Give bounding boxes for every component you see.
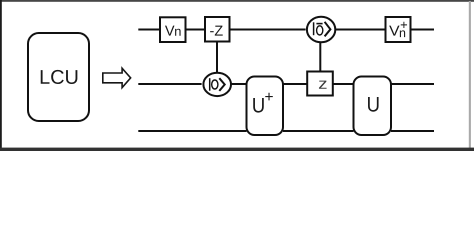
wire q1 segment 2 xyxy=(232,83,247,85)
wire q2 segment 1 xyxy=(138,130,246,132)
control wire from -Z to |0> xyxy=(216,42,218,74)
wire q0 segment 2 xyxy=(186,29,206,31)
wire q1 segment 4 xyxy=(333,83,354,85)
wire q0 segment 1 xyxy=(138,29,160,31)
wire q0 segment 5 xyxy=(411,29,435,31)
state |0bar> on wire q0 xyxy=(307,17,335,43)
gate U+ (U dagger) xyxy=(247,77,284,136)
wire q1 segment 1 xyxy=(138,83,201,85)
wire q1 segment 3 xyxy=(283,83,308,85)
arrow (implies) xyxy=(102,66,132,90)
LCU box xyxy=(28,33,89,121)
gate Vn xyxy=(160,17,186,42)
wire q2 segment 2 xyxy=(283,130,354,132)
gate U xyxy=(354,77,392,136)
wire q0 segment 4 xyxy=(336,29,386,31)
gate -Z xyxy=(205,17,230,42)
state |0> on wire q1 xyxy=(203,73,231,96)
wire q0 segment 3 xyxy=(230,29,306,31)
control wire from |0bar> to z xyxy=(319,43,321,72)
gate Vn+ (V_n^dagger) xyxy=(386,17,411,42)
wire q1 segment 5 xyxy=(391,83,434,85)
gate z xyxy=(307,72,333,96)
wire q2 segment 3 xyxy=(391,130,434,132)
